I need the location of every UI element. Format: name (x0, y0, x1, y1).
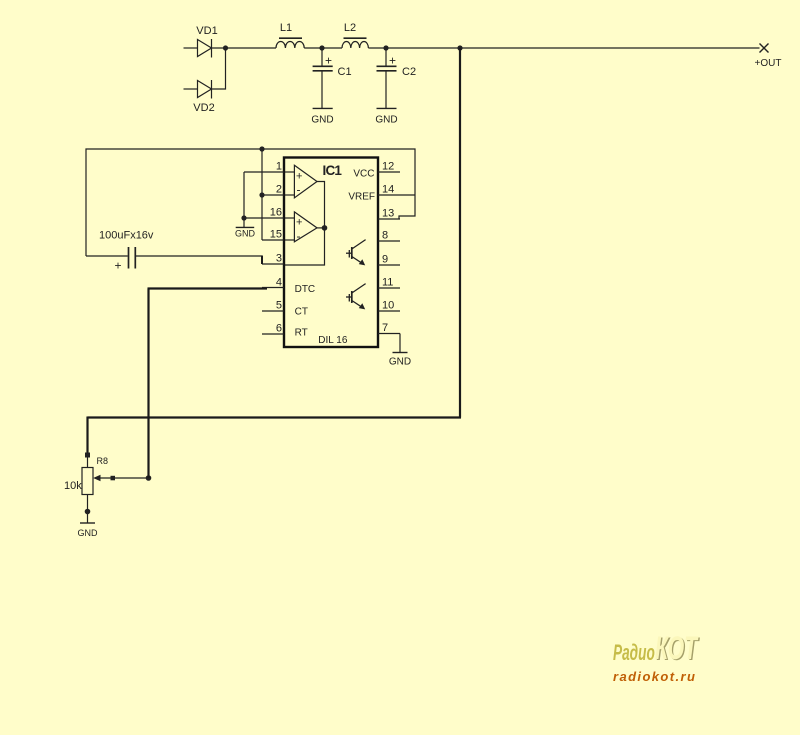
svg-text:10k: 10k (64, 480, 82, 492)
wire feedback top loop (86, 149, 415, 256)
svg-text:+: + (325, 54, 332, 68)
svg-text:DTC: DTC (295, 284, 316, 295)
svg-text:+: + (296, 171, 302, 183)
wire L1 to L2 (304, 47, 342, 49)
svg-text:R8: R8 (97, 456, 109, 466)
node wiper junction (146, 475, 152, 481)
svg-text:+OUT: +OUT (755, 58, 782, 69)
svg-text:1: 1 (276, 161, 282, 173)
pin 11 (378, 277, 400, 289)
svg-text:9: 9 (382, 254, 388, 266)
svg-text:RT: RT (295, 327, 308, 338)
pin 9 (378, 254, 400, 266)
pin 8 (378, 230, 400, 242)
wire L2 to output terminal (368, 47, 759, 49)
wire VD2 cathode up to node (212, 48, 226, 89)
wire output branch down (thick) (459, 48, 461, 418)
capacitor 100uFx16v (86, 230, 262, 273)
wire op-amp output bus (285, 182, 325, 266)
wire DTC horizontal (thick) (148, 287, 268, 289)
wire pin 7 to ground (399, 334, 401, 353)
op-amp U1a (285, 165, 317, 198)
ground under R8 (78, 523, 99, 538)
node pin 2 junction (259, 192, 264, 197)
ground left of IC (235, 227, 256, 238)
svg-text:L1: L1 (280, 22, 292, 34)
node diode junction (223, 45, 228, 50)
node op-amp U1b output (322, 225, 328, 231)
svg-text:GND: GND (311, 115, 333, 126)
svg-text:GND: GND (78, 528, 99, 538)
wire down to R8 top (thick) (86, 417, 88, 456)
capacitor C2 (377, 48, 417, 108)
potentiometer R8 (64, 456, 108, 495)
wiper arrow of R8 (93, 475, 148, 481)
pin 6 (262, 323, 284, 335)
wire wiper up to DTC (thick) (147, 289, 149, 479)
diode VD2 (193, 80, 214, 114)
svg-text:11: 11 (382, 277, 393, 289)
svg-text:+: + (389, 54, 396, 68)
logo Радио (613, 640, 655, 666)
wire node to R8 (87, 455, 89, 468)
capacitor C1 (313, 48, 352, 108)
pin 16 (244, 207, 284, 219)
svg-text:15: 15 (270, 229, 282, 241)
pin 12 (378, 161, 400, 173)
op-amp U1b (285, 212, 317, 243)
wire cap to pin 3 jog (261, 256, 263, 265)
svg-text:16: 16 (270, 207, 282, 219)
svg-text:+: + (296, 217, 302, 229)
wire pin1/pin16 vertical to ground (243, 172, 245, 227)
node top loop / pin2 branch (259, 146, 264, 151)
svg-text:GND: GND (389, 357, 411, 368)
wire pin2/pin15 vertical (261, 149, 263, 240)
svg-text:VD2: VD2 (193, 102, 214, 114)
svg-text:+: + (114, 259, 121, 273)
node pin 16 junction (241, 215, 246, 220)
svg-text:VD1: VD1 (196, 25, 217, 37)
svg-text:7: 7 (382, 322, 388, 334)
svg-text:10: 10 (382, 300, 394, 312)
svg-text:4: 4 (276, 277, 282, 289)
svg-text:5: 5 (276, 300, 282, 312)
svg-text:14: 14 (382, 184, 394, 196)
node R8 top (85, 453, 90, 458)
wiper handle square (111, 476, 116, 481)
ground under C2 (375, 108, 397, 125)
wire VD1 cathode to node (212, 47, 277, 49)
IC U1 body (284, 158, 378, 348)
svg-text:DIL 16: DIL 16 (318, 335, 348, 346)
pin 7 (378, 322, 400, 334)
pin 4 (262, 277, 284, 289)
pin 13 (378, 208, 400, 220)
node C2 junction (383, 45, 388, 50)
svg-text:L2: L2 (344, 22, 356, 34)
svg-text:C1: C1 (338, 66, 352, 78)
svg-text:CT: CT (295, 307, 308, 318)
wire VD1 anode lead (184, 47, 198, 49)
wire across bottom (thick) (88, 416, 462, 418)
svg-text:2: 2 (276, 184, 282, 196)
pin 10 (378, 300, 400, 312)
svg-text:6: 6 (276, 323, 282, 335)
pin 2 (262, 184, 284, 196)
svg-text:VCC: VCC (353, 169, 374, 180)
svg-text:12: 12 (382, 161, 394, 173)
svg-text:VREF: VREF (348, 192, 375, 203)
diode VD1 (196, 25, 217, 58)
svg-text:100uFx16v: 100uFx16v (99, 230, 154, 242)
transistor Q2 (346, 284, 366, 310)
svg-text:-: - (297, 229, 301, 243)
wire VD2 anode lead (184, 88, 198, 90)
ground under C1 (311, 108, 333, 125)
pin 3 (262, 253, 284, 265)
svg-text:13: 13 (382, 208, 394, 220)
ground pin 7 (389, 353, 411, 368)
svg-text:-: - (297, 183, 301, 197)
pin 15 (262, 229, 284, 241)
logo КОТ (655, 630, 697, 667)
svg-text:3: 3 (276, 253, 282, 265)
pin 5 (262, 300, 284, 312)
inductor L1 (276, 22, 304, 48)
node R8 bottom (85, 509, 91, 515)
svg-text:GND: GND (375, 115, 397, 126)
svg-text:8: 8 (382, 230, 388, 242)
pin 1 (244, 161, 284, 173)
svg-text:IC1: IC1 (323, 163, 343, 178)
wire R8 bottom to ground (87, 495, 89, 524)
inductor L2 (342, 22, 368, 48)
transistor Q1 (346, 240, 366, 266)
logo radiokot.ru (613, 669, 696, 684)
svg-text:C2: C2 (402, 66, 416, 78)
node C1 junction (319, 45, 324, 50)
terminal X +OUT (755, 44, 782, 70)
pin 14 (378, 184, 415, 196)
svg-text:GND: GND (235, 229, 256, 239)
wire op-amp U1b output connector (317, 227, 325, 229)
node output branch junction (457, 45, 462, 50)
